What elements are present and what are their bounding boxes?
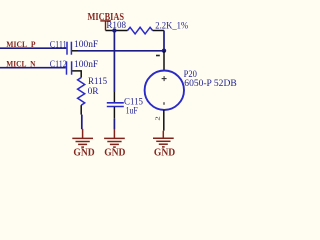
wire C111 to mic node (78, 50, 164, 52)
capacitor C112 pin 2 to R115 (72, 71, 81, 78)
resistor R108 pin 2 (153, 30, 164, 32)
resistor R108 body (128, 27, 153, 34)
microphone P20 pin 1 name minus (156, 55, 160, 57)
svg-text:0R: 0R (88, 86, 99, 97)
svg-text:GND: GND (73, 147, 94, 159)
wire C115 to GND (113, 119, 115, 130)
svg-text:6050-P 52DB: 6050-P 52DB (184, 78, 237, 89)
resistor R115 pin 2 (80, 105, 82, 114)
svg-text:MICL_P: MICL_P (6, 39, 36, 49)
power port MICBIAS bar symbol (100, 21, 111, 31)
ground symbol GND3 (153, 131, 174, 147)
microphone P20 inner bottom mark (163, 102, 165, 105)
capacitor C115 pin 2 (113, 107, 115, 119)
svg-text:100nF: 100nF (74, 39, 99, 50)
wire MICL_N (0, 67, 66, 69)
ground symbol GND2 (104, 129, 125, 147)
microphone P20 body (145, 71, 184, 110)
svg-text:MICL_N: MICL_N (6, 58, 36, 68)
wire MICL_P (0, 47, 66, 49)
microphone P20 pin 1 (minus) (163, 51, 165, 71)
capacitor C112 body (67, 61, 72, 74)
resistor R108 pin 1 (106, 30, 128, 32)
junction dot at MICBIAS node (112, 28, 116, 32)
microphone P20 pin 2 (163, 110, 165, 131)
svg-text:GND: GND (154, 147, 175, 159)
svg-text:2: 2 (154, 116, 161, 121)
svg-text:1uF: 1uF (126, 105, 139, 116)
svg-text:C111: C111 (50, 40, 67, 51)
capacitor C111 pin 2 (72, 50, 78, 52)
wire MICBIAS node down to C115 (113, 31, 115, 93)
ground symbol GND1 (72, 129, 93, 147)
svg-text:C112: C112 (50, 59, 67, 70)
resistor R115 body (78, 78, 85, 106)
svg-text:2.2K_1%: 2.2K_1% (155, 20, 188, 31)
microphone P20 plus mark (162, 76, 167, 81)
wire R115 to GND (81, 115, 83, 130)
svg-text:100nF: 100nF (74, 59, 99, 70)
svg-text:GND: GND (104, 147, 125, 159)
capacitor C115 pin 1 (113, 92, 115, 102)
capacitor C111 body (67, 42, 71, 55)
wire from R108 down to mic node (163, 31, 165, 51)
junction dot at mic plus node (162, 49, 166, 53)
capacitor C115 body (107, 103, 124, 107)
